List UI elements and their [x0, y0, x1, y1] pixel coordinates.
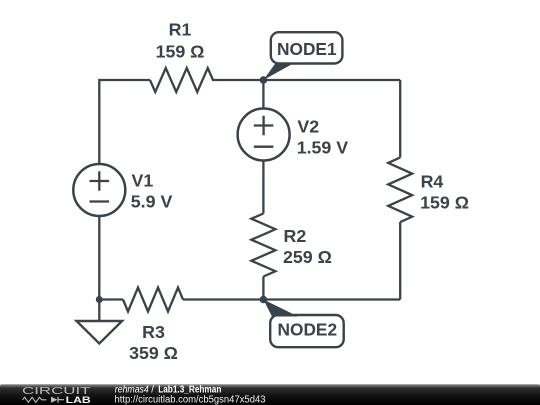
- node NODE1 pointer: [263, 63, 295, 81]
- voltage source V2 circle: [238, 109, 290, 161]
- svg-text:V1: V1: [132, 171, 154, 191]
- V2 minus sign: [254, 146, 274, 148]
- wire V2 top lead: [262, 80, 264, 109]
- svg-text:1.59 V: 1.59 V: [297, 138, 349, 158]
- resistor R2: [251, 214, 275, 277]
- wire ground stub: [98, 300, 100, 322]
- svg-text:159 Ω: 159 Ω: [156, 41, 205, 61]
- footer bar top highlight: [1, 384, 539, 386]
- voltage source V1 circle: [73, 164, 125, 216]
- svg-text:R2: R2: [284, 226, 307, 246]
- svg-text:159 Ω: 159 Ω: [420, 193, 469, 213]
- wire R1 right lead to NODE1: [212, 79, 263, 81]
- svg-text:http://circuitlab.com/cb5gsn47: http://circuitlab.com/cb5gsn47x5d43: [115, 395, 266, 405]
- ground: [77, 321, 123, 344]
- svg-text:V2: V2: [297, 117, 319, 137]
- svg-text:R1: R1: [169, 20, 192, 40]
- wire right rail bottom (R4 to bottom rail): [399, 222, 401, 300]
- svg-text:259 Ω: 259 Ω: [283, 247, 332, 267]
- svg-text:NODE1: NODE1: [277, 39, 337, 59]
- wire NODE2 to R3 right lead: [183, 298, 263, 300]
- wire NODE1 to top-right corner: [263, 79, 400, 81]
- footer bar: [0, 384, 540, 405]
- V2 plus sign: [254, 116, 274, 136]
- footer logo resistor zigzag: [23, 397, 47, 402]
- V1 plus sign: [90, 171, 110, 191]
- svg-text:R3: R3: [142, 322, 165, 342]
- wire right rail top (to R4): [399, 80, 401, 158]
- wire bottom rail right (to NODE2): [263, 298, 400, 300]
- node NODE2 label box: [270, 315, 344, 347]
- footer logo diode: [51, 397, 58, 403]
- svg-text:NODE2: NODE2: [278, 320, 338, 340]
- wire V2 bottom to R2: [262, 160, 264, 213]
- node junction dot left: [96, 296, 103, 303]
- node NODE1 dot: [260, 76, 268, 84]
- svg-text:LAB: LAB: [66, 394, 91, 405]
- svg-text:359 Ω: 359 Ω: [129, 343, 178, 363]
- wire R3 left lead to junction: [99, 298, 123, 300]
- resistor R1: [150, 68, 213, 92]
- svg-text:5.9 V: 5.9 V: [131, 192, 173, 212]
- wire top-left corner (R1 left lead to V1 top): [99, 80, 150, 164]
- resistor R3: [123, 288, 183, 312]
- wire R2 bottom lead: [262, 277, 264, 300]
- node NODE1 label box: [271, 32, 343, 63]
- resistor R4: [388, 158, 412, 223]
- V1 minus sign: [90, 200, 110, 202]
- node NODE2 dot: [260, 296, 268, 304]
- node NODE2 pointer: [263, 300, 298, 317]
- footer logo diode bar and lead: [58, 397, 64, 403]
- svg-text:R4: R4: [421, 172, 444, 192]
- wire V1 bottom to junction: [98, 216, 100, 300]
